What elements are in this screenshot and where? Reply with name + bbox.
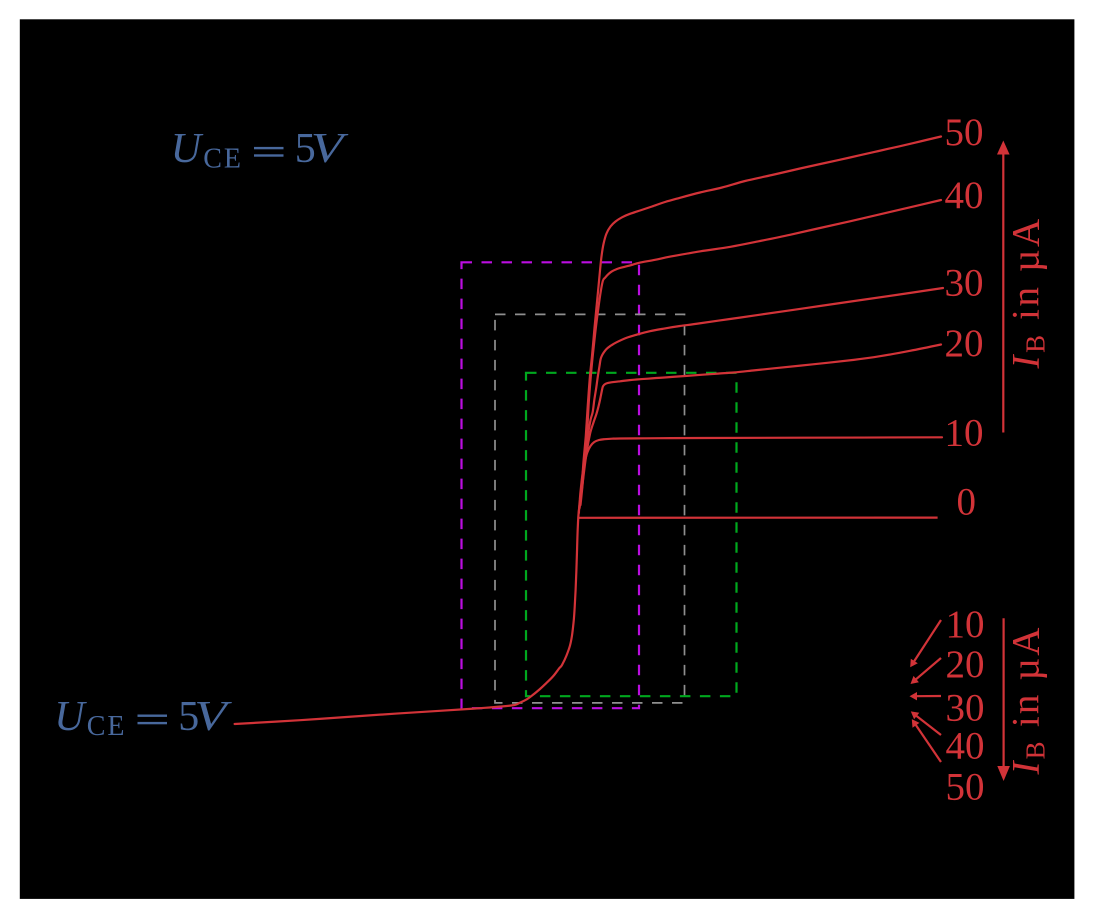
svg-text:10: 10 bbox=[946, 603, 985, 646]
svg-text:20: 20 bbox=[945, 322, 984, 365]
svg-text:20: 20 bbox=[946, 643, 985, 686]
svg-text:V: V bbox=[194, 694, 232, 740]
pointer arrow from label 30 bbox=[914, 695, 941, 697]
svg-text:V: V bbox=[311, 126, 349, 172]
axis label IB in uA (upper, rotated) bbox=[1005, 216, 1051, 369]
svg-text:50: 50 bbox=[946, 766, 985, 809]
curve IB=40 bbox=[581, 200, 942, 505]
svg-text:40: 40 bbox=[945, 174, 984, 217]
svg-text:CE: CE bbox=[203, 143, 243, 174]
dashed box green (IB=20 operating rectangle) bbox=[526, 373, 737, 696]
svg-text:30: 30 bbox=[946, 687, 985, 730]
curve IB=10 bbox=[579, 437, 942, 513]
curve IB=20 bbox=[580, 345, 941, 505]
curve IB=0 bbox=[579, 516, 938, 518]
svg-text:10: 10 bbox=[945, 412, 984, 455]
curve transfer characteristic + IB=50 bbox=[235, 137, 941, 725]
pointer arrow from label 10 bbox=[913, 620, 941, 664]
svg-text:0: 0 bbox=[957, 481, 977, 524]
svg-text:50: 50 bbox=[945, 111, 984, 154]
svg-text:U: U bbox=[54, 694, 87, 740]
axis arrow IB up bbox=[1002, 152, 1004, 433]
pointer arrow from label 40 bbox=[914, 714, 941, 735]
pointer arrow from label 20 bbox=[914, 658, 941, 681]
svg-text:U: U bbox=[171, 126, 204, 172]
curve IB=30 bbox=[580, 288, 943, 508]
pointer arrow from label 50 bbox=[914, 723, 941, 762]
dashed box purple (IB=40 operating rectangle) bbox=[462, 262, 640, 708]
axis arrow IB down (lower) bbox=[1002, 618, 1004, 768]
svg-text:40: 40 bbox=[946, 725, 985, 768]
axis label IB in uA (lower, rotated) bbox=[1005, 625, 1051, 775]
dashed box gray (IB=30 operating rectangle) bbox=[495, 314, 685, 703]
label U_CE = 5V (top left, blue) bbox=[171, 126, 349, 174]
label U_CE = 5V (bottom left, blue) bbox=[54, 694, 232, 742]
svg-text:CE: CE bbox=[87, 711, 127, 742]
svg-text:30: 30 bbox=[945, 262, 984, 305]
